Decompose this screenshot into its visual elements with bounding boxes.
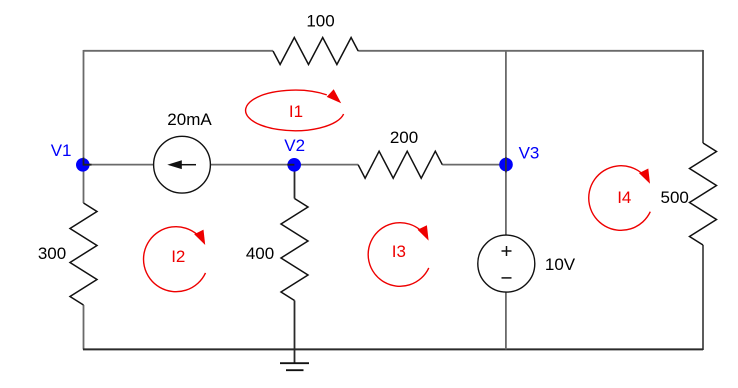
svg-text:400: 400 xyxy=(246,244,274,263)
svg-text:I1: I1 xyxy=(289,102,303,121)
svg-text:I2: I2 xyxy=(171,247,185,266)
svg-text:300: 300 xyxy=(38,244,66,263)
svg-text:I3: I3 xyxy=(392,242,406,261)
svg-text:500: 500 xyxy=(661,188,689,207)
svg-text:100: 100 xyxy=(306,12,334,31)
svg-text:200: 200 xyxy=(390,128,418,147)
svg-text:I4: I4 xyxy=(617,188,631,207)
svg-text:V2: V2 xyxy=(284,136,305,155)
svg-text:V3: V3 xyxy=(519,144,540,163)
svg-text:20mA: 20mA xyxy=(167,110,212,129)
svg-text:V1: V1 xyxy=(51,141,72,160)
svg-text:10V: 10V xyxy=(545,255,576,274)
